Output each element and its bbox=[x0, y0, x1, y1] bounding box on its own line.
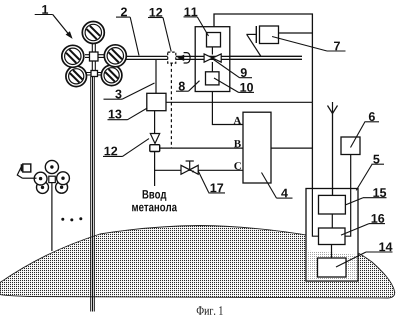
lower cross stubs bbox=[85, 72, 102, 74]
upper cross stubs bbox=[85, 54, 105, 56]
upper cross fitting bbox=[90, 52, 99, 61]
wire box7 to cabinet edge bbox=[279, 32, 313, 34]
radio box 6 bbox=[341, 137, 360, 155]
injection unit box 13 bbox=[147, 93, 166, 110]
port label B bbox=[234, 140, 241, 147]
pipe through valve block bbox=[195, 56, 302, 59]
ellipsis more wells bbox=[61, 217, 82, 221]
lower cross fitting bbox=[91, 71, 98, 77]
telemetry cabinet box 5 bbox=[306, 189, 358, 282]
figure caption bbox=[197, 306, 223, 315]
control unit box 4 bbox=[243, 112, 271, 183]
handwheel upper-right bbox=[104, 45, 126, 67]
wire box13 down to check valve bbox=[154, 111, 156, 134]
wire into box16 from riser bbox=[312, 189, 318, 237]
check valve bbox=[150, 134, 159, 144]
shutoff valve 9 bbox=[204, 54, 221, 62]
valve block 8 bbox=[195, 27, 230, 92]
sensor box 12 (on methanol line) bbox=[150, 145, 160, 152]
wire B line bbox=[160, 147, 243, 149]
port label A bbox=[234, 117, 242, 124]
sensor box 7 bbox=[260, 26, 279, 44]
stem box11 to valve 9 bbox=[211, 47, 213, 55]
wire from valve unit down to port A bbox=[212, 85, 243, 125]
telemetry riser wire down to box 16 bbox=[312, 102, 318, 236]
vertical stem double bbox=[91, 44, 93, 77]
underground hatch inside box 5 bbox=[307, 251, 357, 281]
methanol inlet text bbox=[132, 190, 177, 211]
ground mound bbox=[0, 226, 395, 299]
christmas tree (well 1) bbox=[85, 44, 105, 77]
label 10 bbox=[214, 78, 254, 92]
dashed impulse line bbox=[170, 63, 172, 148]
label 14 bbox=[336, 243, 393, 268]
power box 14 bbox=[318, 258, 347, 277]
label 8 bbox=[176, 81, 200, 92]
processor box 16 bbox=[319, 228, 346, 245]
methanol supply line bbox=[154, 152, 156, 187]
flow-direction arrow with hook bbox=[177, 53, 190, 63]
label 1 with arrow bbox=[35, 5, 73, 39]
handwheel lower-left bbox=[66, 66, 87, 87]
label 5 bbox=[356, 155, 384, 191]
receiver box 15 bbox=[319, 195, 346, 214]
actuator box 11 bbox=[207, 33, 221, 47]
label 12 lower bbox=[103, 139, 149, 157]
wire from pipe down to box 13 bbox=[155, 59, 157, 93]
wire C line bbox=[155, 169, 243, 171]
wire box6 down to box16 bbox=[345, 155, 351, 237]
wire box15 to box16 bbox=[331, 214, 333, 228]
label 4 bbox=[262, 173, 293, 199]
label 2 bbox=[116, 7, 139, 55]
wire from box4 right to telemetry riser bbox=[271, 147, 312, 149]
sensor box 10 bbox=[206, 72, 220, 85]
label 13 bbox=[108, 108, 148, 120]
label 16 bbox=[341, 214, 385, 235]
label 15 bbox=[346, 188, 387, 205]
stem valve 9 to box 10 bbox=[211, 62, 213, 72]
label 12 top bbox=[148, 8, 171, 52]
antenna bbox=[328, 102, 338, 195]
handwheel upper-left bbox=[62, 45, 84, 67]
label 6 bbox=[351, 112, 380, 147]
port label C bbox=[234, 162, 241, 169]
label 17 bbox=[198, 171, 225, 193]
handwheel lower-right bbox=[101, 65, 122, 86]
label 7 bbox=[272, 37, 345, 52]
well flowline pipe (2) bbox=[126, 56, 302, 59]
satellite well (mini tree) bbox=[34, 160, 69, 251]
control-line box 12 (dashed, on pipe) bbox=[168, 52, 176, 63]
wellbore casing bbox=[91, 77, 95, 312]
handwheel top bbox=[82, 22, 104, 44]
controller outer cabinet bbox=[214, 14, 312, 102]
label 9 bbox=[214, 60, 253, 78]
wire box16 to box14 bbox=[331, 245, 333, 259]
signal bus line bbox=[166, 101, 312, 103]
label 11 bbox=[184, 8, 209, 37]
flag outlet symbol bbox=[17, 164, 36, 178]
label 3 bbox=[104, 83, 155, 99]
acoustic pickup on pipe bbox=[246, 26, 261, 57]
hand valve 17 bbox=[181, 161, 198, 174]
